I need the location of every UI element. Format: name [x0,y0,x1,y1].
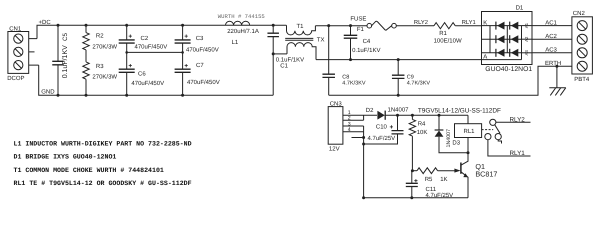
capacitor C10 [364,115,404,144]
wire AC2 [532,38,572,40]
wire pin bracket 1-2 [363,115,365,120]
svg-text:C10: C10 [376,124,388,131]
wire AC line top [315,25,367,27]
wire mid-link [127,51,183,53]
svg-text:1K: 1K [440,176,447,183]
svg-text:DCOP: DCOP [7,75,24,82]
capacitor C11 [406,171,453,200]
svg-text:T1: T1 [297,23,305,30]
svg-text:1N4007: 1N4007 [388,106,410,113]
capacitor C8 [322,24,365,95]
resistor R5 [411,168,456,183]
svg-text:RL1: RL1 [464,128,476,135]
svg-text:1N4007: 1N4007 [446,129,452,148]
svg-text:0.1uF/1KV: 0.1uF/1KV [352,47,380,54]
svg-text:ERTH: ERTH [545,60,561,67]
capacitor C3 [175,24,219,69]
svg-text:GUO40-12NO1: GUO40-12NO1 [485,66,532,73]
svg-text:270K/3W: 270K/3W [92,44,117,51]
svg-text:AC1: AC1 [545,19,557,26]
diode D3 [435,115,468,153]
svg-text:BC817: BC817 [475,170,497,179]
svg-text:C5: C5 [62,32,69,41]
svg-text:220uH/7.1A: 220uH/7.1A [227,28,259,35]
svg-text:T1 COMMON MODE CHOKE WURTH # 7: T1 COMMON MODE CHOKE WURTH # 744824101 [14,167,164,174]
transformer T1 [285,23,324,60]
svg-text:RLY2: RLY2 [414,19,428,26]
svg-text:4.7uF/25V: 4.7uF/25V [368,135,396,142]
svg-text:GND: GND [41,89,55,96]
wire A net [316,59,482,61]
resistor R4 [409,115,427,171]
svg-text:470uF/450V: 470uF/450V [186,46,219,53]
capacitor C4 [344,24,381,61]
wire pin bracket 3-4 [363,126,365,198]
svg-text:D1 BRIDGE IXYS GUO40-12NO1: D1 BRIDGE IXYS GUO40-12NO1 [14,154,117,161]
svg-text:C2: C2 [141,35,149,42]
bridge rectifier D1 [482,5,533,74]
wire AC1 [532,25,572,27]
resistor R2 [83,24,118,51]
svg-text:TX: TX [317,36,325,43]
wire RLY2 [496,121,531,123]
capacitor C7 [175,62,220,97]
wire ERTH rail [329,66,572,95]
capacitor C9 [392,58,430,97]
svg-text:FUSE: FUSE [350,16,366,23]
svg-text:C1: C1 [280,62,288,69]
svg-text:C3: C3 [196,35,204,42]
svg-text:4: 4 [348,127,351,133]
connector CN2 [572,10,593,83]
svg-text:D2: D2 [366,107,374,114]
svg-text:100E/10W: 100E/10W [434,38,462,45]
svg-text:AC2: AC2 [545,33,557,40]
svg-text:4.7K/3KV: 4.7K/3KV [342,80,366,86]
svg-text:470uF/450V: 470uF/450V [135,44,168,51]
inductor L1 [218,13,265,46]
relay contacts [482,119,502,143]
svg-text:A3: A3 [524,50,529,56]
svg-text:A2: A2 [524,36,529,42]
svg-text:AC3: AC3 [545,47,557,54]
svg-text:CN3: CN3 [330,101,343,108]
svg-text:RL1 TE # T9GV5L14-12 OR GOODSK: RL1 TE # T9GV5L14-12 OR GOODSKY # GU-SS-… [14,180,192,187]
capacitor C5 [52,24,69,97]
svg-text:10K: 10K [417,129,428,136]
svg-text:270K/3W: 270K/3W [92,73,117,80]
svg-text:A: A [483,54,487,61]
svg-text:RLY1: RLY1 [510,150,526,157]
svg-text:R4: R4 [418,121,426,128]
wire T1 return [273,53,287,55]
svg-text:L1 INDUCTOR WURTH-DIGIKEY PART: L1 INDUCTOR WURTH-DIGIKEY PART NO 732-22… [14,141,192,148]
capacitor C2 [119,24,168,69]
svg-text:RLY1: RLY1 [462,20,476,26]
wire RLY1 [488,140,531,156]
svg-text:C6: C6 [138,70,146,77]
transistor Q1 [454,153,497,198]
svg-text:PBT4: PBT4 [574,76,590,83]
capacitor C6 [119,64,164,97]
ground [549,66,566,95]
svg-text:F1: F1 [357,26,365,33]
capacitor C1 [267,24,304,95]
svg-text:D3: D3 [452,139,460,146]
svg-text:RLY2: RLY2 [510,117,526,124]
svg-text:R2: R2 [96,33,104,40]
wire GND rail [39,65,274,95]
wire 12V line [385,114,468,116]
wire bottom rail [364,197,468,199]
svg-text:R1: R1 [439,30,447,37]
svg-text:CN2: CN2 [573,10,586,17]
diode D2 [366,106,409,119]
svg-text:C4: C4 [363,38,371,45]
connector CN3 [328,101,377,153]
svg-text:R5: R5 [425,176,433,183]
svg-text:WURTH # 744155: WURTH # 744155 [218,13,265,20]
relay RL1 [455,115,482,154]
svg-text:4.7K/3KV: 4.7K/3KV [407,80,431,86]
svg-text:K: K [483,19,487,26]
connector CN1 [7,26,39,82]
svg-text:470uF/450V: 470uF/450V [131,80,164,87]
svg-text:C7: C7 [196,62,204,69]
resistor R3 [83,50,118,97]
svg-text:R3: R3 [96,63,104,70]
svg-text:D1: D1 [516,5,524,12]
resistor R1 [434,23,462,45]
svg-text:T9GV5L14-12/GU-SS-112DF: T9GV5L14-12/GU-SS-112DF [418,107,501,114]
wire +DC rail [37,25,286,38]
svg-text:L1: L1 [232,39,239,46]
svg-text:CN1: CN1 [9,26,22,33]
wire AC3 [532,52,572,54]
svg-text:0.1uF/1KV: 0.1uF/1KV [61,45,69,78]
fuse F1 [350,16,396,34]
svg-text:A1: A1 [524,22,529,28]
svg-text:470uF/450V: 470uF/450V [187,79,220,86]
svg-text:12V: 12V [329,146,340,153]
